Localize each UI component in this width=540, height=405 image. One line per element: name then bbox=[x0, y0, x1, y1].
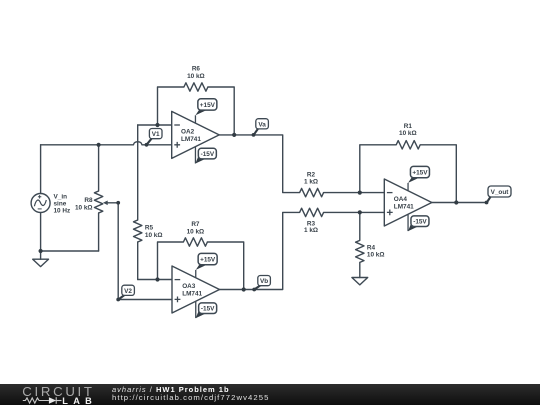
svg-text:10 kΩ: 10 kΩ bbox=[145, 232, 163, 239]
svg-text:V_in: V_in bbox=[54, 193, 68, 200]
svg-text:R8: R8 bbox=[84, 197, 93, 204]
svg-text:LM741: LM741 bbox=[181, 136, 201, 143]
svg-text:10 Hz: 10 Hz bbox=[54, 208, 71, 215]
svg-text:LM741: LM741 bbox=[182, 291, 202, 298]
svg-text:1 kΩ: 1 kΩ bbox=[304, 178, 318, 185]
svg-text:OA3: OA3 bbox=[182, 283, 196, 290]
svg-text:OA4: OA4 bbox=[394, 196, 408, 203]
svg-text:V_out: V_out bbox=[491, 189, 510, 196]
svg-text:V2: V2 bbox=[124, 288, 132, 295]
svg-text:R4: R4 bbox=[367, 244, 376, 251]
svg-text:10 kΩ: 10 kΩ bbox=[75, 204, 93, 211]
svg-text:LAB: LAB bbox=[62, 396, 97, 405]
svg-text:-15V: -15V bbox=[201, 151, 215, 158]
svg-text:sine: sine bbox=[54, 201, 67, 208]
svg-text:10 kΩ: 10 kΩ bbox=[367, 252, 385, 259]
svg-text:R5: R5 bbox=[145, 224, 154, 231]
svg-text:V1: V1 bbox=[152, 131, 160, 138]
svg-text:-15V: -15V bbox=[413, 219, 427, 226]
svg-text:10 kΩ: 10 kΩ bbox=[187, 73, 205, 80]
svg-text:R7: R7 bbox=[191, 221, 200, 228]
svg-text:+15V: +15V bbox=[200, 102, 216, 109]
svg-text:+15V: +15V bbox=[412, 170, 428, 177]
svg-text:10 kΩ: 10 kΩ bbox=[187, 229, 205, 236]
svg-text:LM741: LM741 bbox=[394, 203, 414, 210]
svg-text:Va: Va bbox=[258, 121, 266, 128]
svg-text:+15V: +15V bbox=[200, 257, 216, 264]
svg-text:R1: R1 bbox=[404, 123, 413, 130]
svg-text:10 kΩ: 10 kΩ bbox=[399, 130, 417, 137]
svg-text:1 kΩ: 1 kΩ bbox=[304, 227, 318, 234]
svg-text:http://circuitlab.com/cdjf772w: http://circuitlab.com/cdjf772wv4255 bbox=[112, 393, 269, 402]
svg-text:-15V: -15V bbox=[201, 306, 215, 313]
svg-text:Vb: Vb bbox=[260, 278, 268, 285]
svg-text:OA2: OA2 bbox=[181, 129, 195, 136]
svg-text:R6: R6 bbox=[192, 66, 201, 73]
